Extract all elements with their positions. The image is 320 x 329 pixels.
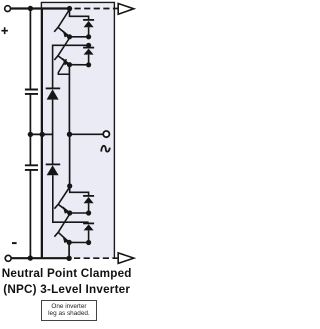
node row E4 <box>69 241 88 243</box>
arrow to other legs (bottom) <box>118 253 134 264</box>
diode D1 cathode bar <box>83 19 94 21</box>
clamp diode D6 cathode bar <box>46 163 61 165</box>
DC+ terminal <box>5 6 11 12</box>
top dashed continuation <box>75 8 118 10</box>
clamp bus lower corner / feed to D4 cathode <box>53 175 89 222</box>
stalk E4 to bottom wire <box>68 242 70 258</box>
node row E3 <box>70 212 89 214</box>
diode D1 <box>84 21 94 27</box>
capacitor C1 <box>25 90 38 94</box>
bottom DC- wire <box>11 257 70 259</box>
D4 anode to node row <box>88 230 90 242</box>
- label <box>12 242 17 244</box>
D2 cathode bar <box>83 47 94 49</box>
output terminal <box>103 131 109 137</box>
title caption <box>0 266 135 297</box>
transistor T4 <box>54 214 69 242</box>
output stalk upper <box>68 65 70 135</box>
clamp diode D6 <box>47 165 59 175</box>
clamp bus upper corner / feed to D2 cathode <box>53 45 89 88</box>
DC-link bus upper segment <box>29 9 31 135</box>
transistor T1 <box>54 10 69 37</box>
diode D4 <box>84 224 94 230</box>
top DC+ wire <box>11 7 71 9</box>
diode D3 <box>84 197 94 203</box>
stalk C1 to D1 feed <box>70 9 89 20</box>
output line <box>69 133 103 135</box>
left vertical bus (other leg) <box>41 9 43 259</box>
transistor T3 <box>54 187 69 213</box>
clamp diode D5 cathode bar <box>46 87 61 89</box>
D3 anode to node row <box>88 203 90 213</box>
T4 emitter arrowhead <box>62 236 69 244</box>
D1 anode to node row <box>88 27 90 37</box>
diode D2 <box>84 49 94 55</box>
AC squiggle <box>101 146 110 152</box>
clamp bus middle segment <box>52 100 54 165</box>
node row E1/C2 <box>70 36 89 38</box>
capacitor C2 <box>25 165 38 170</box>
arrow to other legs (top) <box>118 4 134 15</box>
D2 cathode drop <box>88 45 90 47</box>
T2 emitter arrowhead <box>63 58 70 65</box>
T2 gate zigzag <box>58 59 69 74</box>
clamp diode D5 <box>47 89 59 99</box>
T3 emitter arrowhead <box>63 206 70 214</box>
junction dots <box>28 6 92 261</box>
D4 cathode bar <box>83 222 94 224</box>
neutral line <box>30 133 53 135</box>
bottom dashed continuation <box>74 257 118 259</box>
shaded inverter-leg region <box>41 2 114 258</box>
D2 anode to node row <box>88 55 90 65</box>
node row E2 <box>70 64 89 66</box>
+ label <box>1 27 8 34</box>
diode D3 cathode bar <box>83 195 94 197</box>
T1 emitter arrowhead <box>63 30 70 38</box>
DC- terminal <box>5 255 11 261</box>
DC-link bus lower segment <box>29 134 31 258</box>
note box <box>41 300 98 322</box>
stalk C3 to D3 feed <box>70 186 89 195</box>
output stalk lower <box>69 134 71 186</box>
transistor T2 <box>54 38 69 65</box>
